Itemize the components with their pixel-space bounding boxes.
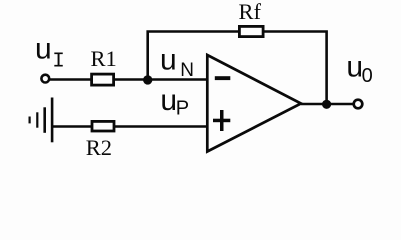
svg-text:Rf: Rf: [239, 0, 262, 24]
svg-text:u: u: [35, 33, 52, 66]
svg-text:u: u: [160, 84, 177, 117]
svg-text:u: u: [346, 51, 363, 84]
svg-text:R1: R1: [91, 46, 117, 71]
svg-text:R2: R2: [86, 135, 112, 160]
svg-text:P: P: [176, 98, 189, 120]
svg-text:0: 0: [362, 65, 373, 87]
svg-text:u: u: [160, 44, 177, 77]
svg-text:I: I: [52, 51, 65, 74]
svg-text:N: N: [180, 60, 194, 81]
